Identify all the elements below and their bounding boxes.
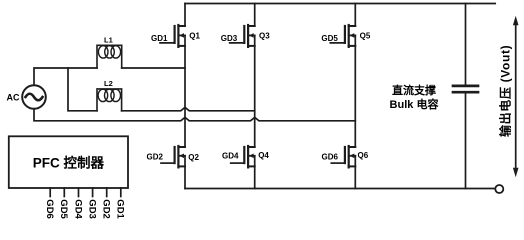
pin GD1 (120, 188, 122, 197)
svg-text:GD1: GD1 (115, 199, 126, 219)
transistor Q4 (231, 146, 255, 189)
transistor Q6 (331, 146, 355, 189)
label 直流支撑 Bulk 电容 (390, 83, 439, 111)
pin GD4 (78, 188, 80, 197)
svg-text:Q2: Q2 (188, 153, 199, 162)
wire AC neutral to phase C with hops over A and B (34, 109, 355, 121)
Vout dimension arrow (513, 16, 519, 178)
svg-text:GD6: GD6 (322, 152, 339, 161)
svg-text:Q1: Q1 (189, 32, 200, 41)
top rail (DC+) (185, 3, 495, 5)
pin GD2 (106, 188, 108, 197)
svg-text:Bulk 电容: Bulk 电容 (390, 97, 439, 111)
transistor Q5 (330, 4, 355, 47)
inductor L1 (97, 45, 122, 68)
PFC controller U1 (9, 136, 128, 188)
pin GD3 (92, 188, 94, 197)
svg-text:GD2: GD2 (147, 152, 164, 161)
wire AC top terminal to L1 (34, 68, 97, 85)
svg-text:Q6: Q6 (358, 151, 369, 160)
transistor Q2 (161, 146, 185, 189)
svg-text:GD1: GD1 (151, 34, 168, 43)
svg-text:L2: L2 (104, 79, 113, 88)
svg-text:PFC 控制器: PFC 控制器 (33, 154, 105, 170)
svg-text:Q4: Q4 (258, 151, 269, 160)
svg-text:输出电压 (Vout): 输出电压 (Vout) (498, 45, 513, 137)
AC source V1 (22, 85, 46, 109)
svg-text:GD6: GD6 (44, 199, 55, 219)
wire phase A midpoint (184, 35, 186, 147)
transistor Q1 (160, 4, 185, 47)
wire L1 to phase A (122, 67, 185, 69)
pin GD6 (49, 188, 51, 197)
svg-text:GD5: GD5 (58, 199, 69, 219)
svg-text:GD4: GD4 (222, 152, 239, 161)
svg-text:GD5: GD5 (321, 34, 338, 43)
svg-text:GD2: GD2 (101, 199, 112, 219)
svg-text:AC: AC (7, 92, 20, 102)
svg-text:GD3: GD3 (86, 199, 97, 219)
svg-text:L1: L1 (104, 36, 113, 45)
transistor Q3 (230, 4, 255, 47)
inductor L2 (97, 89, 122, 111)
wire L2 to phase B with hop over phase A (122, 107, 255, 110)
svg-text:Q3: Q3 (259, 32, 270, 41)
pin GD5 (63, 188, 65, 197)
svg-text:GD3: GD3 (221, 34, 238, 43)
svg-text:GD4: GD4 (72, 199, 83, 219)
wire branch junction down to L2 (68, 68, 97, 111)
wire phase B midpoint (254, 35, 256, 147)
svg-text:直流支撑: 直流支撑 (392, 83, 436, 97)
bottom rail (DC-) (185, 188, 495, 190)
output terminal (495, 185, 503, 193)
svg-text:Q5: Q5 (360, 32, 371, 41)
capacitor C1 (bulk) (453, 4, 478, 189)
wire phase C midpoint (354, 35, 356, 147)
